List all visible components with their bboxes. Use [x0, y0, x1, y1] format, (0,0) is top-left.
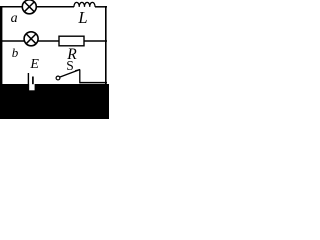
svg-text:b: b	[12, 45, 19, 60]
wire: right border rail	[105, 6, 107, 84]
inductor L coil bumps	[74, 2, 95, 6]
switch right post	[79, 70, 81, 84]
switch S blade arrow barb	[75, 70, 80, 71]
svg-text:a: a	[11, 11, 18, 26]
wire: left border rail	[0, 6, 2, 86]
switch S pivot circle	[56, 76, 60, 80]
wire: bottom right wire to right rail	[80, 82, 107, 84]
svg-text:E: E	[29, 57, 39, 72]
switch S blade (open)	[60, 70, 80, 78]
wire: top wire left segment	[1, 6, 74, 8]
black band (dark area at bottom of screenshot)	[0, 84, 109, 119]
white notch in band below battery	[29, 84, 34, 90]
svg-text:S: S	[66, 58, 74, 73]
svg-text:L: L	[77, 8, 87, 27]
battery E long plate	[27, 73, 29, 90]
resistor R box	[59, 36, 84, 46]
wire: top wire right segment	[95, 6, 107, 8]
battery E short plate	[32, 77, 34, 85]
lamp a (circle with X)	[22, 0, 36, 14]
wire: middle wire	[1, 40, 107, 42]
lamp b (circle with X)	[24, 32, 38, 46]
